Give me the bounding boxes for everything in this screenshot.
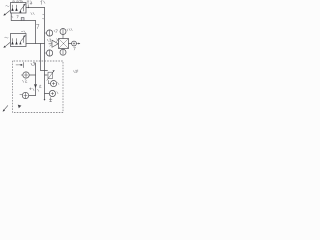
transistor Q2 [15, 7, 17, 10]
wire W2 [11, 13, 35, 21]
node label 21 [20, 1, 24, 3]
input arrow IN2 [5, 43, 10, 47]
node label 15 [36, 24, 39, 28]
transistor Q5 [15, 41, 17, 44]
lamp L3 [60, 29, 66, 35]
arrow down A2 [34, 84, 37, 88]
transistor Q3 [19, 10, 21, 13]
wire W11 vertical [41, 44, 48, 71]
transistor Q6 device [23, 36, 25, 43]
enclosure dashed box [13, 61, 64, 113]
lamp L1 [47, 30, 53, 36]
node label 10 [23, 80, 27, 83]
node label 14 [41, 1, 45, 5]
wire stub [62, 35, 64, 39]
wire W6 [29, 74, 35, 76]
amplifier A1 [52, 40, 58, 47]
node label 18 [30, 3, 32, 5]
output connector J1 [72, 41, 77, 46]
motor M2 [23, 72, 29, 78]
wire W4 [26, 43, 45, 45]
node label 8 [67, 28, 72, 31]
node label 26 [39, 85, 41, 87]
junction dot [28, 7, 29, 8]
figure lead arrow [4, 106, 8, 111]
bus end dot [44, 99, 45, 100]
wire W8 [45, 74, 48, 76]
meter M4 [49, 90, 55, 96]
node label 2 [58, 82, 59, 84]
node label 5 [47, 39, 51, 41]
node label 7 [74, 47, 76, 50]
node label 24 [27, 1, 32, 4]
lead labels [14, 0, 19, 2]
node tick [27, 5, 29, 8]
wire W3 vertical [35, 21, 37, 44]
input arrow IN1 [5, 11, 10, 15]
transistor Q3 device [23, 5, 25, 12]
output arrow [76, 43, 79, 45]
node label 16 [11, 16, 18, 18]
node label 26b [38, 89, 39, 91]
tick on bus [42, 14, 44, 19]
fuse F1 [21, 18, 24, 21]
wire W7 vertical [35, 63, 37, 96]
node label 12 [31, 63, 35, 66]
generator G1 [51, 81, 57, 87]
variable resistor R1 [48, 72, 53, 78]
wire stub [62, 48, 64, 51]
ground GND1 [49, 98, 52, 102]
wire W9 [29, 95, 36, 97]
node label 23 [21, 31, 25, 33]
input arrow A3 [19, 64, 23, 66]
node label 9 [54, 30, 57, 33]
mixer M1 box [59, 39, 69, 49]
motor M3 [22, 92, 28, 98]
lamp L4 [60, 49, 66, 55]
lamp L2 [47, 50, 53, 56]
wire W5 [69, 43, 72, 45]
bus wire B1 [44, 8, 46, 101]
lead arrowhead at box [18, 105, 22, 109]
node label 22 [5, 37, 9, 38]
amplifier block U2 box [11, 34, 27, 47]
node label 13 [73, 70, 77, 73]
transistor Q4 [11, 41, 13, 44]
transistor Q1 [11, 7, 13, 10]
node label 25 [29, 88, 34, 91]
node label 17 [31, 12, 35, 14]
transistor Q7 [19, 41, 21, 44]
wire W10 [45, 93, 50, 95]
node X mark [56, 39, 59, 42]
wire W1 [26, 7, 45, 9]
wire top leads [13, 1, 21, 3]
node label 20 [6, 5, 10, 6]
node label 3 [57, 92, 58, 94]
amplifier block U1 box [11, 3, 27, 14]
